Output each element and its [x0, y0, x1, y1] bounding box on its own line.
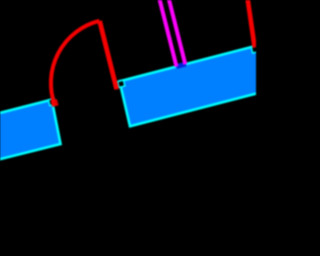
- jamb box J1 (left wall end, cyan): [48, 98, 55, 105]
- window line right (magenta): [169, 0, 186, 64]
- door D1 leaf: [100, 21, 117, 89]
- wall W1 (left slab): [0, 100, 61, 160]
- door D2 leaf (top right): [248, 0, 255, 48]
- window sill (navy) on wall W2: [176, 62, 187, 69]
- door D1 strike box (red): [52, 100, 58, 106]
- window line left (magenta): [159, 0, 176, 67]
- jamb box J2 (right wall end at door hinge, cyan): [118, 80, 125, 87]
- door D1 swing arc: [51, 21, 99, 105]
- jamb box J3 (top-right door, cyan): [251, 46, 258, 53]
- wall W2 (right slab): [120, 45, 259, 126]
